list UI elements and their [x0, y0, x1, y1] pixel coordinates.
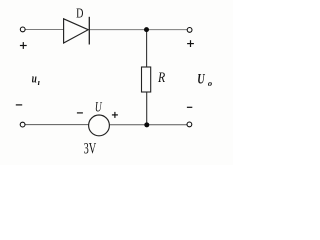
- label minus (source left): [77, 112, 83, 114]
- terminal bottom-left: [20, 122, 25, 127]
- svg-text:D: D: [76, 7, 83, 22]
- terminal top-left: [20, 27, 25, 32]
- label plus (top-left terminal): [20, 42, 27, 49]
- svg-text:R: R: [157, 70, 165, 86]
- label minus (bottom-right terminal): [187, 106, 192, 108]
- wire bottom-left (terminal to source): [25, 124, 89, 126]
- svg-text:ı: ı: [38, 77, 40, 87]
- wire top-left (input to diode anode): [25, 29, 64, 31]
- wire bottom-right (source to terminal): [109, 124, 187, 126]
- svg-text:3V: 3V: [84, 141, 97, 158]
- label U_o (output voltage): [197, 71, 212, 88]
- svg-text:U: U: [95, 100, 103, 116]
- node junction bottom: [144, 122, 149, 127]
- wire vertical resistor top: [146, 30, 148, 68]
- diode D: [64, 17, 90, 45]
- label u_i (input voltage): [32, 70, 40, 87]
- label plus (top-right terminal): [187, 40, 194, 47]
- node junction top: [144, 27, 149, 32]
- label plus (source right): [112, 112, 118, 118]
- wire vertical resistor bottom: [146, 92, 148, 125]
- svg-text:o: o: [208, 78, 212, 88]
- terminal top-right: [187, 28, 192, 33]
- svg-text:u: u: [32, 70, 37, 85]
- terminal bottom-right: [187, 122, 192, 127]
- resistor R: [142, 67, 151, 92]
- voltage source 3V: [89, 115, 110, 136]
- svg-text:U: U: [197, 71, 205, 87]
- label minus (bottom-left terminal): [16, 104, 22, 106]
- wire top-right (diode cathode to output terminal): [90, 29, 187, 31]
